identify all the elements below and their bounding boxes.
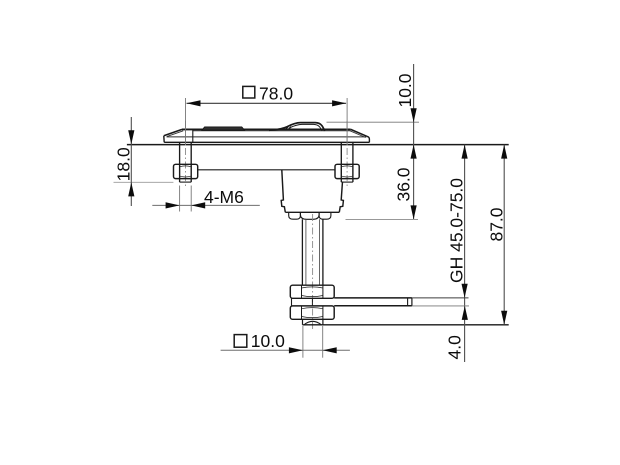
pawl arm — [292, 298, 412, 306]
housing bottom tab middle — [300, 212, 319, 219]
dimension GH extension line (pawl top) — [412, 297, 469, 299]
shaft end box — [303, 319, 323, 325]
dimension 4-M6 extension lines — [179, 186, 181, 212]
dimension 18.0 line — [130, 117, 132, 206]
dimension 18.0 arrow top — [128, 130, 134, 144]
housing bottom edge — [285, 211, 339, 213]
svg-text:GH 45.0-75.0: GH 45.0-75.0 — [446, 178, 466, 283]
lower cam nut — [290, 306, 334, 319]
svg-text:4-M6: 4-M6 — [204, 187, 244, 207]
dimension 10.0 down arrow — [411, 108, 417, 122]
dimension sq 10.0 arrow left — [289, 347, 303, 353]
housing body right edge with clip notch — [339, 182, 343, 213]
flange plate top secondary edge — [193, 130, 350, 132]
dimension GH arrow top — [462, 145, 468, 159]
dimension 4-M6 line — [152, 204, 259, 206]
square shaft outer edges — [301, 219, 303, 285]
dimension sq 78.0 extension line right — [346, 98, 348, 144]
dimension GH arrow bottom — [462, 284, 468, 298]
lock hump outer contour — [269, 123, 325, 131]
housing bottom tab right — [319, 212, 331, 219]
dimension sq 10.0 line — [221, 349, 350, 351]
dimension sq 10.0 arrow right — [323, 347, 337, 353]
dimension sq 78.0 extension line left — [185, 98, 187, 144]
dimension 4-M6 arrow left — [166, 202, 180, 208]
dimension 10.0 top extension line (hump top level) — [327, 121, 420, 123]
dimension 18.0 arrow bottom — [128, 182, 134, 196]
dimension 4.0 up arrow — [462, 306, 468, 320]
right stud M6 — [340, 142, 342, 182]
dimension 87.0 arrow bottom — [501, 311, 507, 325]
dimension GH line — [464, 145, 466, 362]
svg-text:87.0: 87.0 — [486, 207, 506, 241]
left stud centerline (dash-dot) — [185, 121, 187, 189]
dimension 4-M6 arrow right — [191, 202, 205, 208]
svg-text:4.0: 4.0 — [445, 335, 465, 360]
flange plate left chamfer inner line — [167, 131, 183, 137]
svg-text:10.0: 10.0 — [395, 73, 415, 107]
handle grip strip (dark) — [202, 127, 245, 130]
left stud end cap — [180, 181, 192, 183]
shaft centerline (dash-dot) — [312, 214, 314, 332]
flange plate left edge — [163, 136, 165, 143]
dimension sq 78.0 square symbol — [243, 86, 255, 98]
flange plate top edge — [182, 128, 351, 130]
svg-text:36.0: 36.0 — [393, 167, 413, 201]
dimension sq 10.0 square symbol — [234, 335, 247, 348]
dimension sq 78.0 line with arrows — [187, 100, 347, 106]
dimension 18.0 reference line at stud end — [114, 181, 174, 183]
flange plate right chamfer inner line — [350, 131, 366, 138]
svg-text:18.0: 18.0 — [114, 147, 134, 181]
square shaft inner corner lines — [305, 219, 307, 285]
right stud end cap — [341, 181, 353, 183]
hump slope hatch ticks — [285, 127, 291, 130]
lock hump inner contour — [289, 124, 322, 130]
dimension sq 10.0 extension lines — [302, 326, 304, 358]
upper cam nut — [290, 285, 334, 298]
panel / mounting surface line — [127, 144, 509, 146]
dimension 10.0 line above — [413, 64, 415, 219]
dimension 36.0 arrow bottom — [411, 205, 417, 219]
housing bottom tab left — [289, 212, 301, 219]
right stud centerline (dash-dot) — [346, 121, 348, 189]
dimension 36.0 extension line (housing bottom) — [346, 218, 419, 220]
dimension 87.0 arrow top — [501, 145, 507, 159]
dimension 36.0 arrow top (shared with 10.0) — [411, 145, 417, 159]
left stud M6 — [179, 142, 181, 182]
flange plate bottom edge — [164, 141, 369, 143]
latch bottom reference line — [303, 324, 509, 326]
housing top line (nut to nut) — [198, 169, 335, 171]
flange plate mid (rim) line — [167, 136, 367, 138]
dimension 4.0 extension line (pawl bottom) — [412, 305, 469, 307]
right stud hex nut — [335, 164, 359, 178]
flange plate right edge — [367, 136, 370, 142]
svg-text:78.0: 78.0 — [259, 83, 293, 103]
flange plate right chamfer — [351, 129, 367, 136]
flange plate left chamfer — [164, 129, 182, 135]
left stud hex nut — [174, 164, 198, 178]
housing body left edge with clip notch — [281, 170, 285, 213]
svg-text:10.0: 10.0 — [251, 331, 285, 351]
handle section edge tick — [192, 129, 194, 142]
dimension 87.0 line — [503, 145, 505, 325]
